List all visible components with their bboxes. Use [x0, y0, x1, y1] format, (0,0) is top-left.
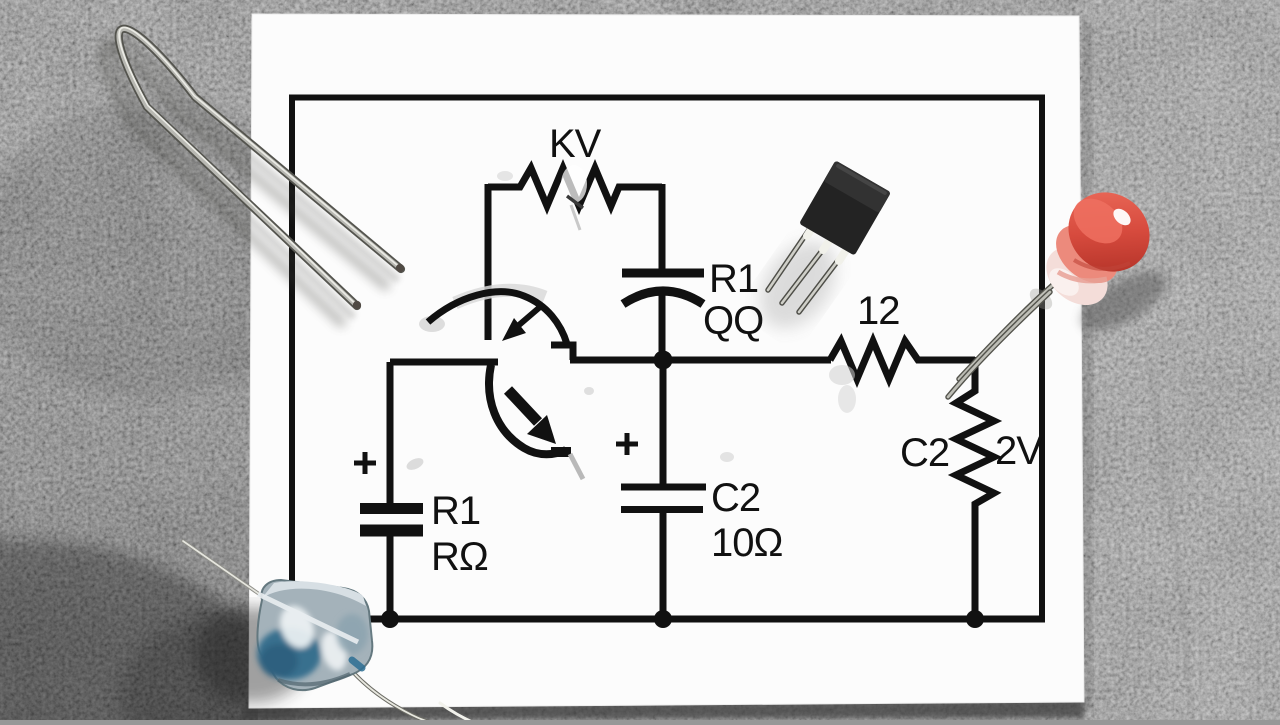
- resistor KV: [488, 168, 662, 206]
- transistor Q1 symbol: [419, 290, 583, 479]
- capacitor R1 (bottom left, polarized plates): [360, 362, 423, 619]
- polarity plus (left capacitor): [354, 452, 376, 474]
- photo: LED shadow: [1072, 260, 1175, 343]
- svg-text:R1: R1: [431, 489, 480, 533]
- photo: paper clip shadow: [103, 38, 396, 322]
- wire base segment (left of transistor): [390, 359, 498, 366]
- svg-text:QQ: QQ: [703, 299, 763, 343]
- node junction bottom-left: [381, 610, 399, 628]
- wire right border: [1039, 95, 1045, 620]
- white worn patch on KV resistor: [561, 165, 587, 230]
- wire KV left branch: [485, 184, 492, 340]
- svg-text:10Ω: 10Ω: [711, 521, 782, 565]
- photo: paper clip: [119, 27, 404, 309]
- photo: film capacitor body (blue metallic): [257, 580, 372, 690]
- node junction mid: [654, 351, 673, 370]
- node junction bottom-mid: [654, 610, 672, 628]
- photo: LED body: [1035, 176, 1166, 317]
- capacitor R1 (polarized, top): [622, 273, 704, 362]
- wire KV right branch: [659, 184, 666, 270]
- capacitor C2 (middle bottom): [621, 355, 706, 619]
- wire left border: [289, 95, 295, 620]
- wire collector stub and step: [551, 345, 573, 360]
- photo: film capacitor shadow: [194, 607, 310, 703]
- wire mid segment (junction to resistor 12): [570, 357, 831, 364]
- svg-text:C2: C2: [900, 431, 949, 475]
- svg-text:R1: R1: [709, 257, 758, 301]
- gray smudge below resistor 12: [829, 365, 856, 413]
- paper sheet: [240, 14, 1093, 720]
- resistor C2/2V (vertical right): [956, 357, 994, 619]
- node junction bottom-right: [966, 610, 984, 628]
- resistor 12 (horizontal): [830, 341, 975, 379]
- photo: transistor package (black, with legs): [768, 160, 891, 312]
- photo: transistor package shadow: [744, 227, 851, 342]
- svg-text:C2: C2: [711, 476, 760, 520]
- svg-text:KV: KV: [549, 122, 602, 166]
- svg-text:RΩ: RΩ: [431, 535, 488, 579]
- wire top border: [289, 95, 1045, 101]
- faint smudges on paper: [405, 171, 734, 472]
- svg-text:12: 12: [857, 289, 900, 333]
- polarity plus (middle capacitor): [616, 433, 638, 455]
- photo: LED leads: [948, 284, 1056, 397]
- wire bottom rail: [289, 616, 1045, 623]
- photo: film capacitor leads: [183, 541, 472, 725]
- svg-text:2V: 2V: [995, 429, 1043, 473]
